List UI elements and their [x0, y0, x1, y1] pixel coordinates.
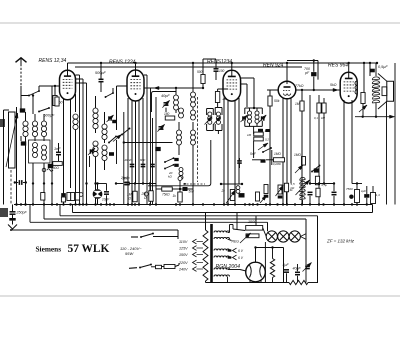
switch S1 antenna — [28, 90, 40, 96]
dial lamp 1 — [266, 231, 277, 242]
wire y183 far right — [352, 182, 362, 184]
coil L5 — [42, 145, 47, 160]
wire reg left — [229, 232, 264, 236]
resistor R15 1M — [294, 153, 306, 165]
ground main — [8, 221, 17, 231]
resistor Rb4 75k — [156, 184, 172, 205]
wire row y183 left — [115, 182, 151, 184]
wire x1238 — [123, 112, 125, 205]
trimmer CT3 — [157, 120, 164, 132]
wire top seg y59 — [203, 58, 216, 60]
svg-text:pF: pF — [304, 71, 310, 75]
bus y215 — [60, 205, 318, 284]
wire x16 — [16, 107, 18, 205]
resistor Rb8 — [264, 185, 269, 198]
svg-text:4k: 4k — [290, 188, 294, 192]
svg-text:4μF: 4μF — [283, 263, 290, 267]
IF2 coil Lb — [255, 108, 259, 126]
transformer sec mid w1 — [214, 249, 230, 251]
wire V2 right — [144, 75, 151, 88]
capacitor dark C8 — [155, 147, 160, 151]
svg-text:220V: 220V — [178, 261, 188, 265]
lamp return — [264, 242, 266, 283]
wire V3 pin d — [238, 98, 240, 184]
label ZF — [326, 239, 355, 244]
capacitor C12 700pF — [304, 61, 317, 91]
svg-text:40μF: 40μF — [293, 267, 302, 271]
IF1 bracket left — [207, 109, 214, 131]
edge mark left lower — [0, 208, 8, 217]
svg-text:1k: 1k — [173, 194, 177, 198]
wire x75 screen — [75, 88, 77, 112]
osc grid loop — [152, 92, 177, 113]
svg-text:240V: 240V — [178, 267, 188, 271]
label voltage taps — [178, 240, 188, 272]
switch S5 — [164, 164, 179, 170]
svg-text:RENS 1224: RENS 1224 — [109, 60, 136, 66]
wire x44 down — [43, 163, 45, 205]
IF1 coil La — [208, 112, 212, 124]
wire x355 left — [354, 103, 356, 117]
wire IF1 down — [210, 131, 224, 141]
wire y1597 — [252, 150, 274, 165]
wire V2 pin d — [142, 98, 144, 184]
node dots top bus — [100, 59, 378, 64]
capacitor dark C13 — [314, 160, 319, 173]
shield box input — [29, 140, 51, 163]
power drop a — [255, 216, 257, 230]
wire x52 down — [51, 86, 53, 205]
wire V2 pin b — [131, 101, 133, 205]
wire V3 pin c — [234, 101, 236, 205]
tube V2 RENS1224 — [127, 70, 144, 101]
svg-text:1nF: 1nF — [54, 147, 61, 151]
svg-text:50k: 50k — [274, 99, 280, 103]
wire row y183 c — [129, 183, 156, 185]
wire V2 anode — [135, 63, 137, 70]
svg-text:100: 100 — [219, 69, 225, 73]
resistor R13 — [317, 95, 321, 205]
svg-text:RES 964: RES 964 — [328, 63, 348, 69]
coil L16 — [191, 122, 196, 205]
capacitor C4 1nF — [54, 143, 61, 161]
resistor Rb5 1k — [173, 188, 183, 202]
tube V1 RENS1234 — [60, 70, 76, 100]
zigzag Rp2 — [289, 280, 308, 284]
coil L8 — [93, 133, 98, 205]
label V1 RENS1234 — [39, 58, 67, 64]
wire V3 anode — [231, 63, 233, 70]
label V4 REN904 — [263, 63, 284, 69]
svg-text:1M: 1M — [247, 133, 252, 137]
resistor R6 02M — [254, 137, 270, 141]
wire V4 anode — [286, 63, 288, 81]
coil dots b — [236, 186, 240, 194]
junction dots mid — [85, 182, 96, 184]
resistor R5 1M — [247, 132, 263, 137]
wire x395 down — [394, 63, 396, 205]
resistor Rb7 — [256, 192, 260, 201]
svg-text:1,4: 1,4 — [376, 193, 380, 197]
frame line bottom — [0, 295, 400, 297]
wire V5 pin a — [343, 100, 345, 205]
resistor R10 02M — [272, 158, 285, 166]
transformer core — [210, 224, 213, 283]
trimmer CT5 left — [241, 115, 248, 126]
resistor Rb6 pot — [221, 189, 236, 204]
svg-text:5kΩ: 5kΩ — [330, 83, 337, 87]
terminal circle D — [178, 177, 182, 190]
wire pickup right — [96, 182, 106, 191]
trimmer CT1b — [107, 115, 114, 122]
wire y86 left — [52, 85, 60, 87]
capacitor C17 on y182 — [14, 180, 27, 185]
svg-text:0,2: 0,2 — [265, 138, 269, 142]
bus main y204 — [14, 204, 373, 206]
capacitor dark C16 — [266, 129, 271, 132]
power line corner — [177, 230, 179, 239]
terminal circle E — [144, 192, 148, 196]
tap wires — [197, 242, 204, 270]
label 1MOhm det — [274, 152, 281, 156]
squiggle TA — [42, 168, 53, 172]
coil L6 V1 anode — [73, 114, 78, 205]
resistor Rb3 25k — [141, 184, 154, 202]
svg-text:6 V: 6 V — [238, 256, 244, 260]
svg-text:1MΩ: 1MΩ — [294, 153, 301, 157]
title 57 WLK — [68, 243, 110, 255]
pot arrow det — [258, 143, 268, 150]
svg-text:RGN 2004: RGN 2004 — [216, 264, 241, 270]
pot arrow psu — [303, 262, 312, 283]
antenna coil L3 — [41, 114, 46, 141]
bus y226 — [11, 229, 178, 231]
wire x2536 down — [253, 126, 255, 158]
tube V4 REN924 — [278, 81, 296, 99]
wire x147 x150 — [147, 75, 151, 205]
wire V3 pin b — [227, 101, 229, 205]
capacitor C10 dark — [258, 129, 270, 133]
transformer sec top w2 — [214, 237, 232, 240]
lamp arrow — [300, 234, 306, 240]
wire V3 pin a — [223, 98, 225, 205]
bus y222 — [30, 205, 268, 232]
switch S7 — [295, 165, 320, 173]
pot arrow b2 — [260, 196, 267, 204]
gang dash line mid — [197, 97, 199, 182]
wire top bus y63 — [68, 62, 377, 64]
wire row y183 mid — [98, 183, 117, 185]
wire x3627 down — [363, 70, 376, 117]
wire y184 seg — [220, 183, 243, 185]
resistor R9 50k — [268, 90, 280, 205]
resistor R osc — [197, 59, 205, 89]
svg-text:5nF: 5nF — [250, 152, 257, 156]
resistor Rb02 — [71, 193, 75, 201]
capacitor C15 05uF — [370, 65, 388, 72]
wire speaker bottom — [355, 115, 395, 118]
rectifier tube RGN2004 — [246, 257, 266, 283]
output transformer spring — [372, 63, 380, 103]
antenna coil L2 — [32, 114, 37, 141]
IF3 coil — [355, 74, 357, 94]
variable capacitor C1 — [6, 112, 18, 168]
coil L11 — [174, 87, 179, 113]
coil L10 — [102, 145, 107, 170]
dial lamp 2 — [278, 231, 289, 242]
resistor Rb2 1M — [127, 184, 137, 202]
svg-text:8nF: 8nF — [140, 158, 145, 162]
wire x79 x82 x86 pass — [80, 75, 87, 205]
capacitor Cb9 — [361, 186, 369, 205]
volume pot coil — [291, 177, 310, 204]
trimmer CT1 — [88, 148, 95, 167]
wire V2 pin a — [127, 98, 129, 205]
wire x364 down — [363, 70, 365, 92]
resistor Rb03 — [75, 193, 79, 201]
wire V4 right — [296, 89, 302, 91]
svg-text:20nF: 20nF — [124, 158, 132, 162]
svg-text:RENS 12,34: RENS 12,34 — [39, 58, 67, 64]
gang dashed line — [10, 170, 12, 205]
coil L4 — [33, 143, 38, 158]
resistor Rb11 — [316, 188, 320, 197]
wire V1 anode x67 — [67, 63, 69, 70]
bus y218 — [44, 205, 306, 262]
svg-text:Siemens: Siemens — [36, 244, 62, 253]
svg-text:250pF: 250pF — [16, 211, 28, 215]
resistor R13b — [322, 98, 326, 184]
wire y60 coupling — [287, 61, 318, 80]
wire x156 — [155, 97, 157, 205]
switch S3b — [108, 136, 117, 144]
capacitor Cb8 — [332, 182, 337, 204]
resistor Rb10 — [284, 183, 293, 204]
wire x152 — [152, 118, 154, 205]
label mains volts — [120, 246, 142, 256]
label 20k osc — [168, 171, 173, 179]
capacitor dark C2 — [20, 104, 25, 113]
svg-text:75kΩ: 75kΩ — [162, 193, 170, 197]
capacitor dark C18 — [109, 152, 114, 156]
osc line y88 — [151, 86, 204, 89]
mains fuse — [162, 263, 180, 269]
capacitor dark V2g — [112, 120, 117, 164]
wire x386 down — [386, 101, 388, 204]
coil L14 — [191, 63, 196, 110]
wire V1 pin b — [70, 99, 72, 188]
tube V3 RENS1234 — [223, 70, 241, 101]
wire top bus y67 — [75, 66, 302, 68]
svg-text:0,2MΩ: 0,2MΩ — [273, 162, 281, 166]
wire left x3 — [4, 110, 10, 205]
transformer sec top w1 — [214, 225, 230, 233]
resistor R2 750 — [51, 162, 62, 170]
transformer sec mid w2 — [214, 256, 230, 258]
resistor Rb12 7500 — [346, 184, 360, 203]
resistor R3 180 — [164, 112, 175, 120]
svg-text:0,1: 0,1 — [314, 116, 318, 120]
transformer primary — [203, 213, 208, 282]
bus dots main — [15, 203, 368, 205]
wire V2 pin c — [138, 101, 140, 205]
IF1 bracket right — [215, 108, 222, 131]
switch S4 — [164, 157, 179, 163]
wire V2 center — [135, 101, 137, 184]
label 77k 5k — [295, 83, 337, 88]
capacitor dark Cb5 — [239, 193, 245, 197]
capacitor Cb3 — [120, 176, 129, 185]
wire y142 mid — [123, 141, 173, 143]
resistor 1500 a — [246, 220, 263, 230]
capacitor Cb2 — [102, 192, 110, 205]
capacitor C6 500pF — [95, 63, 106, 92]
transformer sec bot w2 — [214, 275, 230, 283]
wire lamp feed — [263, 228, 267, 237]
label V3 RENS1234 — [207, 59, 232, 65]
power switch S8 — [131, 230, 178, 238]
drop to REG — [236, 213, 238, 230]
switch S3 — [105, 92, 114, 98]
capacitor dark C5 — [48, 164, 53, 168]
bus y212 — [73, 205, 373, 213]
antenna — [16, 58, 27, 112]
junction dots left — [15, 182, 53, 205]
wire y183 right — [309, 182, 334, 184]
mains cord plug — [129, 264, 162, 269]
caps row y164 — [124, 158, 155, 167]
antenna coil L1 — [23, 112, 28, 147]
coil L13 — [177, 122, 182, 155]
wire osc sw — [101, 88, 113, 116]
label 5nF det — [250, 152, 266, 163]
resistor R14b — [315, 176, 327, 187]
osc shield frame — [148, 140, 211, 186]
wire osc top — [156, 90, 166, 97]
svg-text:1500: 1500 — [248, 220, 257, 224]
wire top right corner — [364, 63, 370, 76]
tube V5 RES964 — [340, 72, 357, 103]
capacitor dark C3 — [21, 136, 26, 205]
IF1 trimmer a — [205, 117, 213, 125]
trimmer CT5 right — [259, 115, 266, 126]
wire x33 down — [32, 94, 34, 204]
IF2 coil La — [247, 108, 251, 126]
pot arrow right — [359, 105, 367, 112]
svg-text:20nF: 20nF — [120, 176, 129, 180]
svg-text:2k: 2k — [222, 97, 227, 101]
svg-text:110V: 110V — [179, 240, 188, 244]
wire V5 grid — [302, 88, 340, 91]
resistor Rp1 zigzag — [270, 246, 274, 282]
svg-text:6 V: 6 V — [238, 249, 244, 253]
speaker — [378, 74, 394, 110]
wire rect cathode — [254, 246, 283, 256]
title Siemens — [36, 244, 62, 253]
switch S2 — [38, 107, 50, 112]
wire x2835 down — [283, 248, 285, 283]
svg-text:57 WLK: 57 WLK — [68, 243, 110, 255]
wire V4 pin a — [282, 98, 284, 205]
capacitor dark Cb4 — [172, 183, 195, 194]
wire V5 anode — [348, 63, 350, 72]
svg-text:95W: 95W — [125, 251, 134, 256]
resistor R1 50k — [53, 85, 63, 106]
IF2 bracket — [245, 104, 262, 126]
svg-text:REN 924: REN 924 — [263, 63, 284, 69]
resistor Rb0 — [41, 193, 45, 201]
label V2 RENS1224 — [109, 60, 136, 66]
resistor R12 1M — [295, 89, 304, 205]
wire V1 pin a — [63, 99, 65, 205]
wire x310 — [309, 95, 311, 184]
svg-text:0,5μF: 0,5μF — [378, 65, 388, 69]
resistor R4 2k — [215, 89, 228, 107]
resistor 1500 b — [246, 234, 259, 238]
resistor Rb9 — [276, 185, 284, 199]
edge mark left upper — [0, 119, 5, 127]
capacitor C11 — [237, 158, 242, 168]
svg-text:1MΩ: 1MΩ — [274, 152, 281, 156]
svg-text:125V: 125V — [179, 246, 188, 250]
coil L15 — [191, 110, 196, 120]
svg-text:ZF = 132 kHz: ZF = 132 kHz — [326, 239, 355, 244]
dashed wire mid — [183, 183, 205, 185]
wire V3 right taps — [241, 78, 254, 107]
svg-text:RENS1234: RENS1234 — [207, 59, 232, 65]
terminal small x81 — [79, 193, 83, 197]
wire S1 leads — [21, 86, 52, 96]
svg-text:1M: 1M — [295, 102, 300, 106]
tap arrows — [193, 239, 197, 271]
svg-text:7500: 7500 — [346, 187, 353, 191]
pickup jack — [93, 184, 103, 205]
wire sec to 1500 — [230, 225, 246, 231]
svg-text:1M: 1M — [321, 116, 326, 120]
resistor R V1 bottom — [55, 97, 59, 115]
trimmer CT2 — [162, 88, 169, 112]
capacitor Cp1 4uF — [283, 248, 290, 283]
transformer sec bot w1 — [214, 268, 246, 271]
heater taps — [228, 248, 244, 260]
resistor R right — [361, 92, 365, 117]
svg-text:500pF: 500pF — [44, 114, 55, 118]
resistor Rb01 — [67, 193, 71, 201]
grid cap V3 — [214, 59, 225, 80]
switch V2 grid — [113, 128, 130, 142]
label 40pF — [161, 94, 170, 98]
grid wire V4 — [267, 89, 278, 91]
switch S6 — [262, 147, 272, 153]
grid wire V2 — [117, 86, 128, 130]
IF1 trimmer b — [213, 117, 221, 125]
wire V4 pin c — [290, 98, 292, 184]
coil L9 — [102, 116, 107, 143]
coil L12 — [179, 108, 184, 118]
coil L17b — [179, 168, 183, 180]
label RGN2004 — [216, 264, 241, 270]
svg-text:500: 500 — [197, 70, 203, 74]
label 500pF S2 — [44, 114, 55, 118]
svg-text:2k: 2k — [221, 189, 226, 193]
coil L7 — [93, 96, 98, 133]
frame line top — [0, 22, 400, 24]
capacitor Cp2 40uF — [293, 264, 302, 283]
svg-text:150V: 150V — [179, 253, 188, 257]
svg-text:REG: REG — [232, 240, 240, 244]
REG arrow — [232, 233, 251, 244]
capacitor dark Cb0 — [61, 193, 66, 202]
